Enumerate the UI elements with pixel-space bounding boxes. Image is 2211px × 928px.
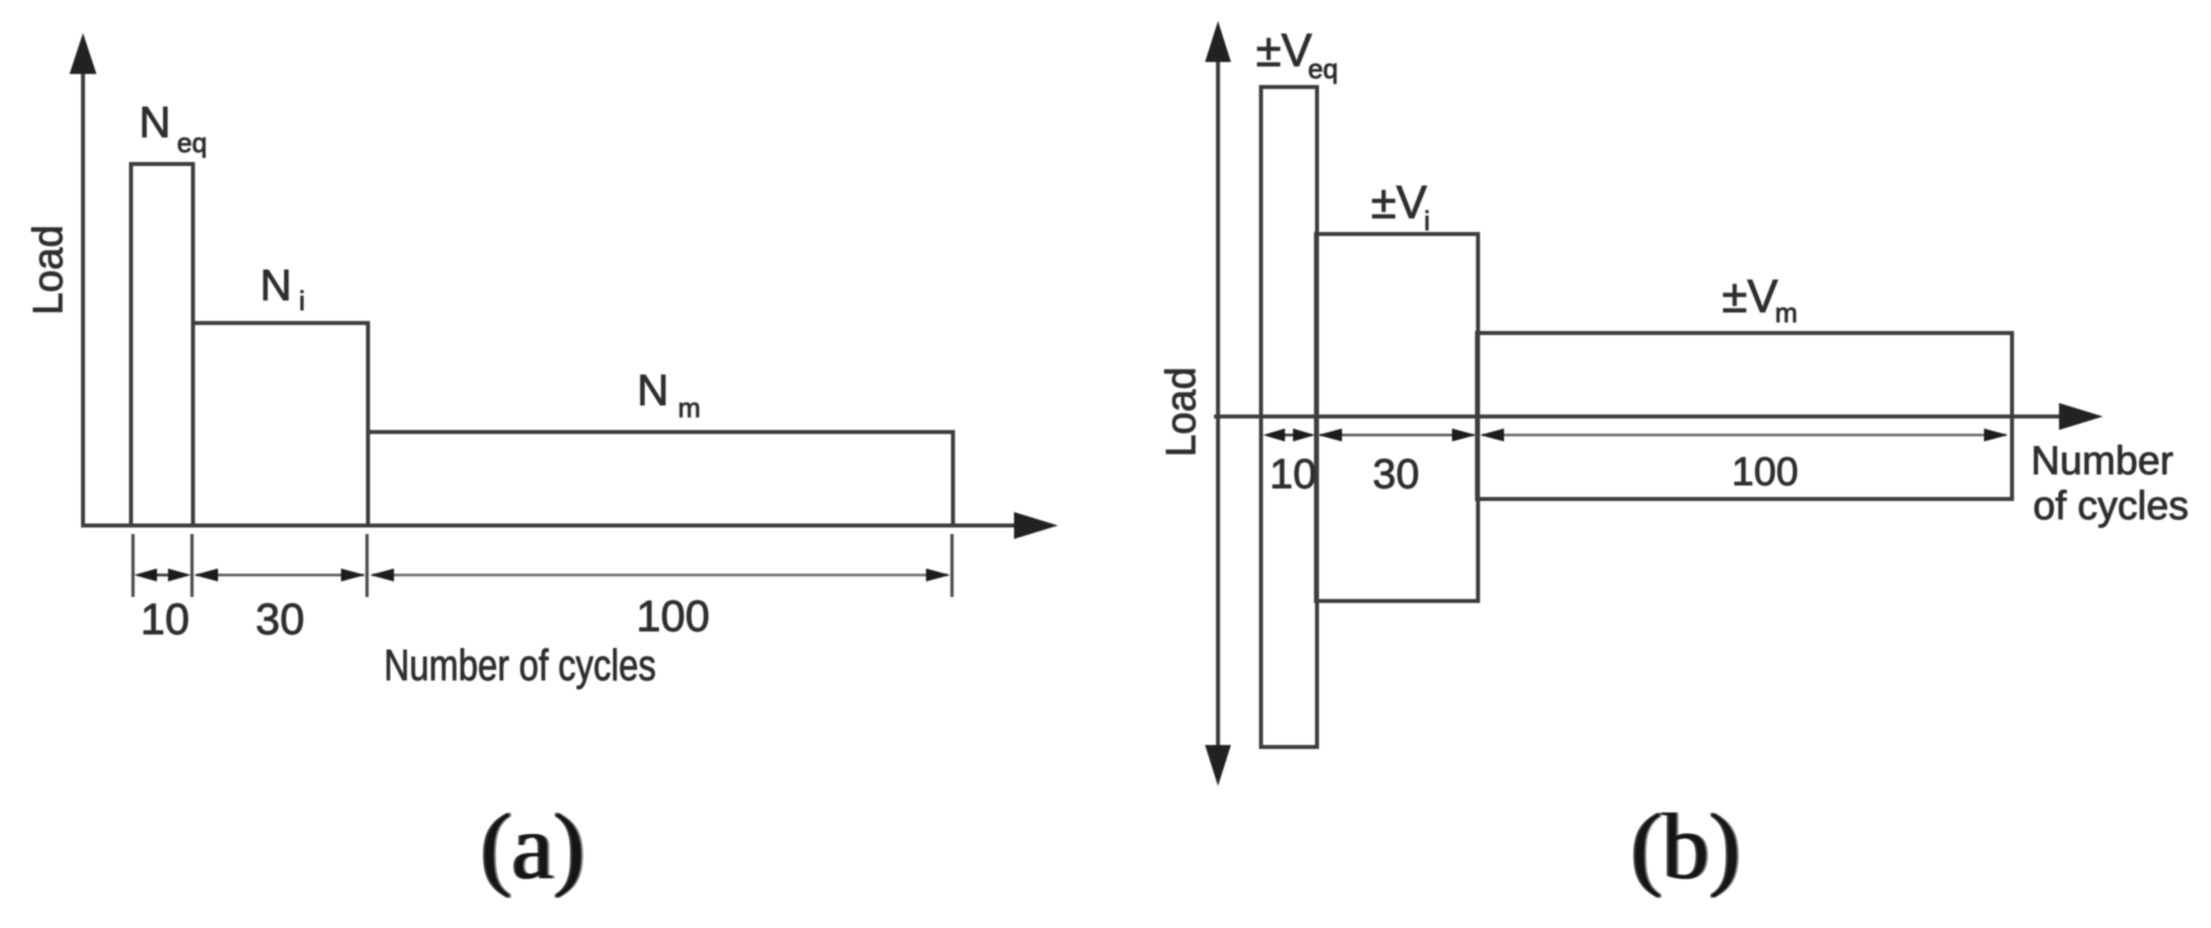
svg-text:(a): (a) (481, 795, 585, 899)
svg-text:30: 30 (256, 595, 305, 644)
svg-text:Number of cycles: Number of cycles (384, 641, 656, 690)
svg-text:30: 30 (1373, 450, 1420, 497)
svg-text:(b): (b) (1631, 795, 1741, 899)
svg-text:i: i (1424, 206, 1430, 236)
svg-text:100: 100 (636, 592, 709, 641)
svg-text:N: N (260, 261, 292, 310)
svg-text:eq: eq (1308, 54, 1338, 84)
svg-text:10: 10 (141, 595, 190, 644)
svg-text:eq: eq (177, 128, 207, 158)
svg-text:Number: Number (2031, 439, 2173, 483)
svg-text:m: m (1775, 298, 1798, 328)
svg-text:of cycles: of cycles (2033, 484, 2189, 528)
svg-text:i: i (299, 286, 305, 316)
svg-text:±V: ±V (1256, 24, 1312, 76)
svg-text:Load: Load (24, 225, 71, 315)
svg-text:m: m (678, 393, 701, 423)
svg-text:Load: Load (1157, 367, 1204, 457)
svg-text:±V: ±V (1722, 270, 1778, 322)
svg-text:10: 10 (1270, 450, 1317, 497)
svg-text:±V: ±V (1371, 176, 1427, 228)
svg-text:N: N (637, 366, 669, 415)
svg-text:N: N (139, 98, 171, 147)
svg-text:100: 100 (1732, 450, 1799, 494)
